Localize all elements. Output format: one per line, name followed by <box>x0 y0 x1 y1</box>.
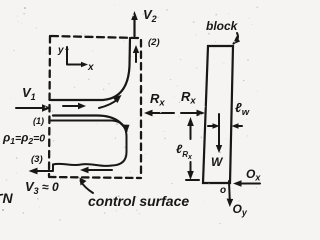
svg-text:(3): (3) <box>31 154 43 165</box>
svg-text:N: N <box>3 190 14 206</box>
svg-text:block: block <box>206 19 239 33</box>
svg-text:ρ1=ρ2=0: ρ1=ρ2=0 <box>2 131 45 147</box>
svg-text:y: y <box>57 45 64 56</box>
svg-text:o: o <box>220 185 226 196</box>
svg-text:(2): (2) <box>148 37 160 48</box>
svg-text:W: W <box>211 155 224 169</box>
svg-text:(1): (1) <box>33 116 44 126</box>
svg-text:V3 ≈ 0: V3 ≈ 0 <box>25 179 59 196</box>
svg-text:x: x <box>87 62 94 73</box>
